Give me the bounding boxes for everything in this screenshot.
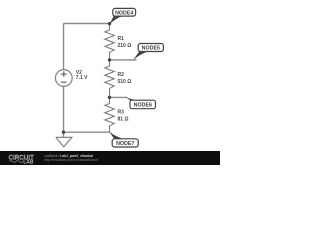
node D junction dot left bottom: [62, 131, 65, 134]
ground: [56, 137, 72, 146]
svg-text:NODE5: NODE5: [142, 46, 160, 52]
node NODE7 flag: [109, 131, 138, 147]
label R1: [118, 36, 132, 49]
svg-text:81 Ω: 81 Ω: [118, 117, 129, 123]
wire node6 stub: [110, 96, 128, 98]
svg-text:R1: R1: [118, 36, 125, 42]
node NODE4 flag: [109, 8, 135, 24]
node C junction dot R2/R3: [108, 96, 111, 99]
svg-text:R2: R2: [118, 72, 125, 78]
wire left vertical (bottom): [63, 87, 65, 138]
footer bar: [0, 151, 220, 165]
node A junction dot top: [108, 22, 111, 25]
label V2 value: [76, 70, 88, 81]
svg-text:510 Ω: 510 Ω: [118, 79, 132, 85]
footer CircuitLab logo: [9, 155, 35, 165]
resistor R1: [105, 24, 114, 60]
wire bottom horizontal: [64, 131, 110, 133]
node NODE5 flag: [133, 44, 164, 61]
label R2: [118, 72, 132, 85]
svg-text:NODE7: NODE7: [116, 141, 134, 147]
node B junction dot R1/R2: [108, 58, 111, 61]
node NODE6 flag: [125, 97, 156, 109]
resistor R3: [105, 98, 114, 133]
svg-text:210 Ω: 210 Ω: [118, 43, 132, 49]
svg-text:LAB: LAB: [23, 160, 34, 165]
wire left vertical (top): [63, 24, 65, 70]
resistor R2: [105, 60, 114, 98]
svg-text:NODE6: NODE6: [134, 103, 152, 109]
svg-text:7.1 V: 7.1 V: [76, 75, 88, 81]
wire node5 stub: [110, 59, 137, 61]
voltage source V2: [55, 70, 72, 87]
svg-text:R3: R3: [118, 110, 125, 116]
wire top horizontal: [64, 23, 110, 25]
label R3: [118, 110, 129, 123]
svg-text:NODE4: NODE4: [115, 10, 133, 16]
svg-text:http://circuitlab.com/c/cradxw: http://circuitlab.com/c/cradxw84auhf: [44, 158, 98, 162]
